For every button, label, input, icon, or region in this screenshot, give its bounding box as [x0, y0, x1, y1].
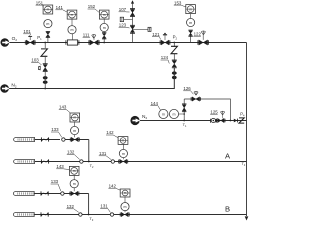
svg-text:132: 132	[67, 204, 75, 209]
orifice 133	[62, 138, 65, 141]
wire silencer stub left	[124, 18, 133, 20]
wire	[34, 193, 88, 195]
svg-text:m: m	[162, 112, 165, 116]
svg-text:m: m	[103, 26, 106, 30]
svg-text:133: 133	[51, 127, 59, 132]
svg-text:131: 131	[100, 204, 108, 209]
wire line B	[34, 214, 246, 216]
wire N2 lower line	[140, 120, 247, 122]
instrument box 151	[43, 5, 53, 14]
svg-text:m: m	[103, 13, 106, 17]
valve 121 with solenoid	[161, 40, 169, 45]
instrument box 141	[67, 10, 77, 19]
svg-text:P2: P2	[173, 34, 178, 40]
gauge circle 141	[68, 26, 76, 34]
wire drop B1 to B2	[88, 194, 90, 215]
valve 126 with actuator	[192, 97, 200, 101]
handle on valve 103	[39, 66, 41, 70]
burner lance A2	[14, 160, 35, 164]
svg-text:141: 141	[56, 5, 64, 10]
flexible hose	[40, 159, 42, 163]
wire bypass top	[184, 99, 230, 121]
gauge circle 153	[187, 18, 195, 26]
wire	[190, 13, 192, 18]
svg-text:143: 143	[59, 105, 67, 110]
flexible hose	[40, 191, 42, 195]
svg-text:m: m	[124, 191, 127, 195]
svg-text:m: m	[173, 112, 176, 116]
motor valve B2	[121, 212, 128, 217]
node junction vent tap	[44, 42, 46, 44]
svg-text:131: 131	[99, 151, 107, 156]
svg-text:123: 123	[119, 22, 127, 27]
burner lance B1	[13, 192, 34, 196]
instrument 152 root valve	[103, 42, 105, 44]
svg-text:124: 124	[161, 55, 169, 60]
svg-text:121: 121	[152, 32, 160, 37]
orifice 131	[111, 160, 114, 163]
wire vent riser to atmosphere	[132, 1, 134, 42]
wire	[44, 56, 46, 64]
svg-text:O2: O2	[12, 36, 18, 42]
svg-text:143: 143	[56, 164, 64, 169]
svg-text:m: m	[46, 22, 49, 26]
flow transmitter 144 twin circles	[159, 109, 168, 118]
svg-text:142: 142	[109, 183, 117, 188]
burner lance B2	[13, 213, 34, 217]
node T1 junction	[183, 120, 185, 122]
silencer left	[120, 17, 123, 21]
svg-text:T4: T4	[242, 162, 246, 167]
source arrow N2 inlet	[0, 84, 9, 93]
valve 124	[172, 61, 176, 67]
control valve 125	[218, 118, 225, 122]
wire	[44, 72, 46, 89]
svg-text:142: 142	[106, 130, 114, 135]
node T3 junction	[88, 214, 90, 216]
svg-text:m: m	[122, 152, 125, 156]
valve on riser	[182, 105, 186, 111]
control valve 122 with actuator	[199, 40, 208, 45]
svg-text:T1: T1	[183, 122, 187, 128]
svg-text:m: m	[124, 205, 127, 209]
gauge circle 142B	[121, 203, 129, 211]
node junction on N2 line	[44, 88, 46, 90]
wire purge drop	[173, 43, 175, 48]
control valve 111 with actuator	[90, 40, 98, 45]
svg-text:m: m	[71, 13, 74, 17]
wire drop A1 to A2	[88, 140, 90, 162]
vent arrowhead	[131, 0, 134, 3]
wire	[124, 197, 126, 203]
wire	[173, 53, 175, 60]
wire O2 main header	[9, 42, 246, 44]
svg-text:m: m	[122, 139, 125, 143]
motor valve B1	[71, 191, 78, 196]
wire elbow to N2 header	[9, 68, 174, 89]
motor valve A1	[71, 137, 78, 142]
svg-text:B: B	[225, 204, 230, 213]
burner lance A1	[14, 138, 35, 142]
instrument box 142B	[120, 189, 130, 197]
wire silencer stub right	[133, 28, 149, 30]
svg-text:107: 107	[119, 7, 127, 12]
flexible hose	[40, 212, 42, 216]
svg-text:125: 125	[210, 109, 218, 114]
silencer right	[148, 27, 151, 31]
instrument 151 root valve	[47, 31, 49, 43]
instrument 153 root valve	[190, 31, 192, 43]
svg-text:P1: P1	[37, 35, 42, 41]
svg-text:m: m	[73, 116, 76, 120]
gauge circle 142A	[119, 149, 127, 157]
flame arrester Z symbol	[41, 49, 47, 56]
instrument box 153	[186, 5, 196, 14]
check valve arrow	[234, 119, 237, 123]
svg-text:m: m	[189, 7, 192, 11]
wire transmitter connection	[179, 113, 185, 115]
wire	[103, 19, 105, 23]
outlet arrowhead bottom	[245, 216, 249, 220]
svg-text:T2: T2	[90, 163, 94, 169]
svg-text:m: m	[189, 21, 192, 25]
svg-text:m: m	[73, 182, 76, 186]
pressure gauge circle 151	[44, 20, 52, 28]
svg-text:144: 144	[151, 101, 159, 106]
orifice flow element 125 line	[210, 119, 212, 123]
gauge circle 143B	[70, 180, 78, 188]
svg-text:152: 152	[88, 4, 96, 9]
node junction N2 purge tap	[173, 42, 175, 44]
svg-text:N2: N2	[11, 83, 16, 89]
wire right supply riser	[246, 43, 248, 217]
instrument box 143A	[70, 113, 80, 122]
wire	[73, 176, 75, 180]
svg-text:m: m	[73, 129, 76, 133]
flow element 141 on pipe	[67, 40, 77, 45]
valve 103	[43, 65, 47, 71]
instrument box 143B	[69, 166, 79, 175]
node bypass rejoin	[230, 120, 232, 122]
node T2 junction	[88, 161, 90, 163]
motor valve A2	[120, 159, 127, 164]
gauge circle 143A	[71, 126, 79, 134]
orifice 132B	[79, 213, 82, 216]
svg-text:m: m	[73, 169, 76, 173]
svg-text:N2: N2	[142, 114, 147, 120]
instrument box 142A	[118, 137, 128, 145]
svg-text:132: 132	[67, 150, 75, 155]
svg-text:133: 133	[51, 179, 59, 184]
wire vent drop	[44, 43, 46, 49]
wire line A	[35, 161, 247, 163]
valve 107	[130, 9, 134, 15]
wire	[65, 139, 89, 141]
gauge circle 152	[100, 23, 108, 31]
flame arrester Z symbol	[171, 46, 177, 53]
check valve	[172, 71, 177, 74]
valve 101 with T-handle	[26, 40, 34, 45]
source arrow O2 inlet	[1, 38, 10, 47]
svg-text:126: 126	[183, 86, 191, 91]
svg-text:122: 122	[194, 31, 202, 36]
svg-text:T3: T3	[89, 216, 93, 222]
orifice 132	[80, 160, 83, 163]
svg-text:111: 111	[83, 32, 90, 37]
check valve	[43, 76, 48, 79]
wire bypass riser	[183, 99, 185, 121]
orifice 133B	[61, 192, 64, 195]
flexible hose	[40, 137, 42, 141]
valve 123	[130, 26, 134, 32]
wire	[71, 19, 73, 25]
wire	[74, 122, 76, 126]
instrument box 152	[99, 10, 109, 19]
svg-text:m: m	[47, 8, 50, 12]
orifice 131B	[110, 213, 113, 216]
wire	[35, 139, 60, 141]
wire	[122, 144, 124, 149]
svg-text:P4: P4	[240, 112, 245, 118]
wire instrument connection	[71, 34, 73, 40]
flame arrester Z symbol	[239, 118, 244, 123]
svg-text:101: 101	[23, 29, 31, 34]
svg-text:A: A	[225, 152, 231, 161]
svg-text:m: m	[71, 28, 74, 32]
svg-text:153: 153	[174, 0, 182, 5]
source arrow N2 lower inlet	[130, 116, 139, 125]
svg-text:103: 103	[31, 58, 39, 63]
svg-text:151: 151	[36, 0, 44, 5]
